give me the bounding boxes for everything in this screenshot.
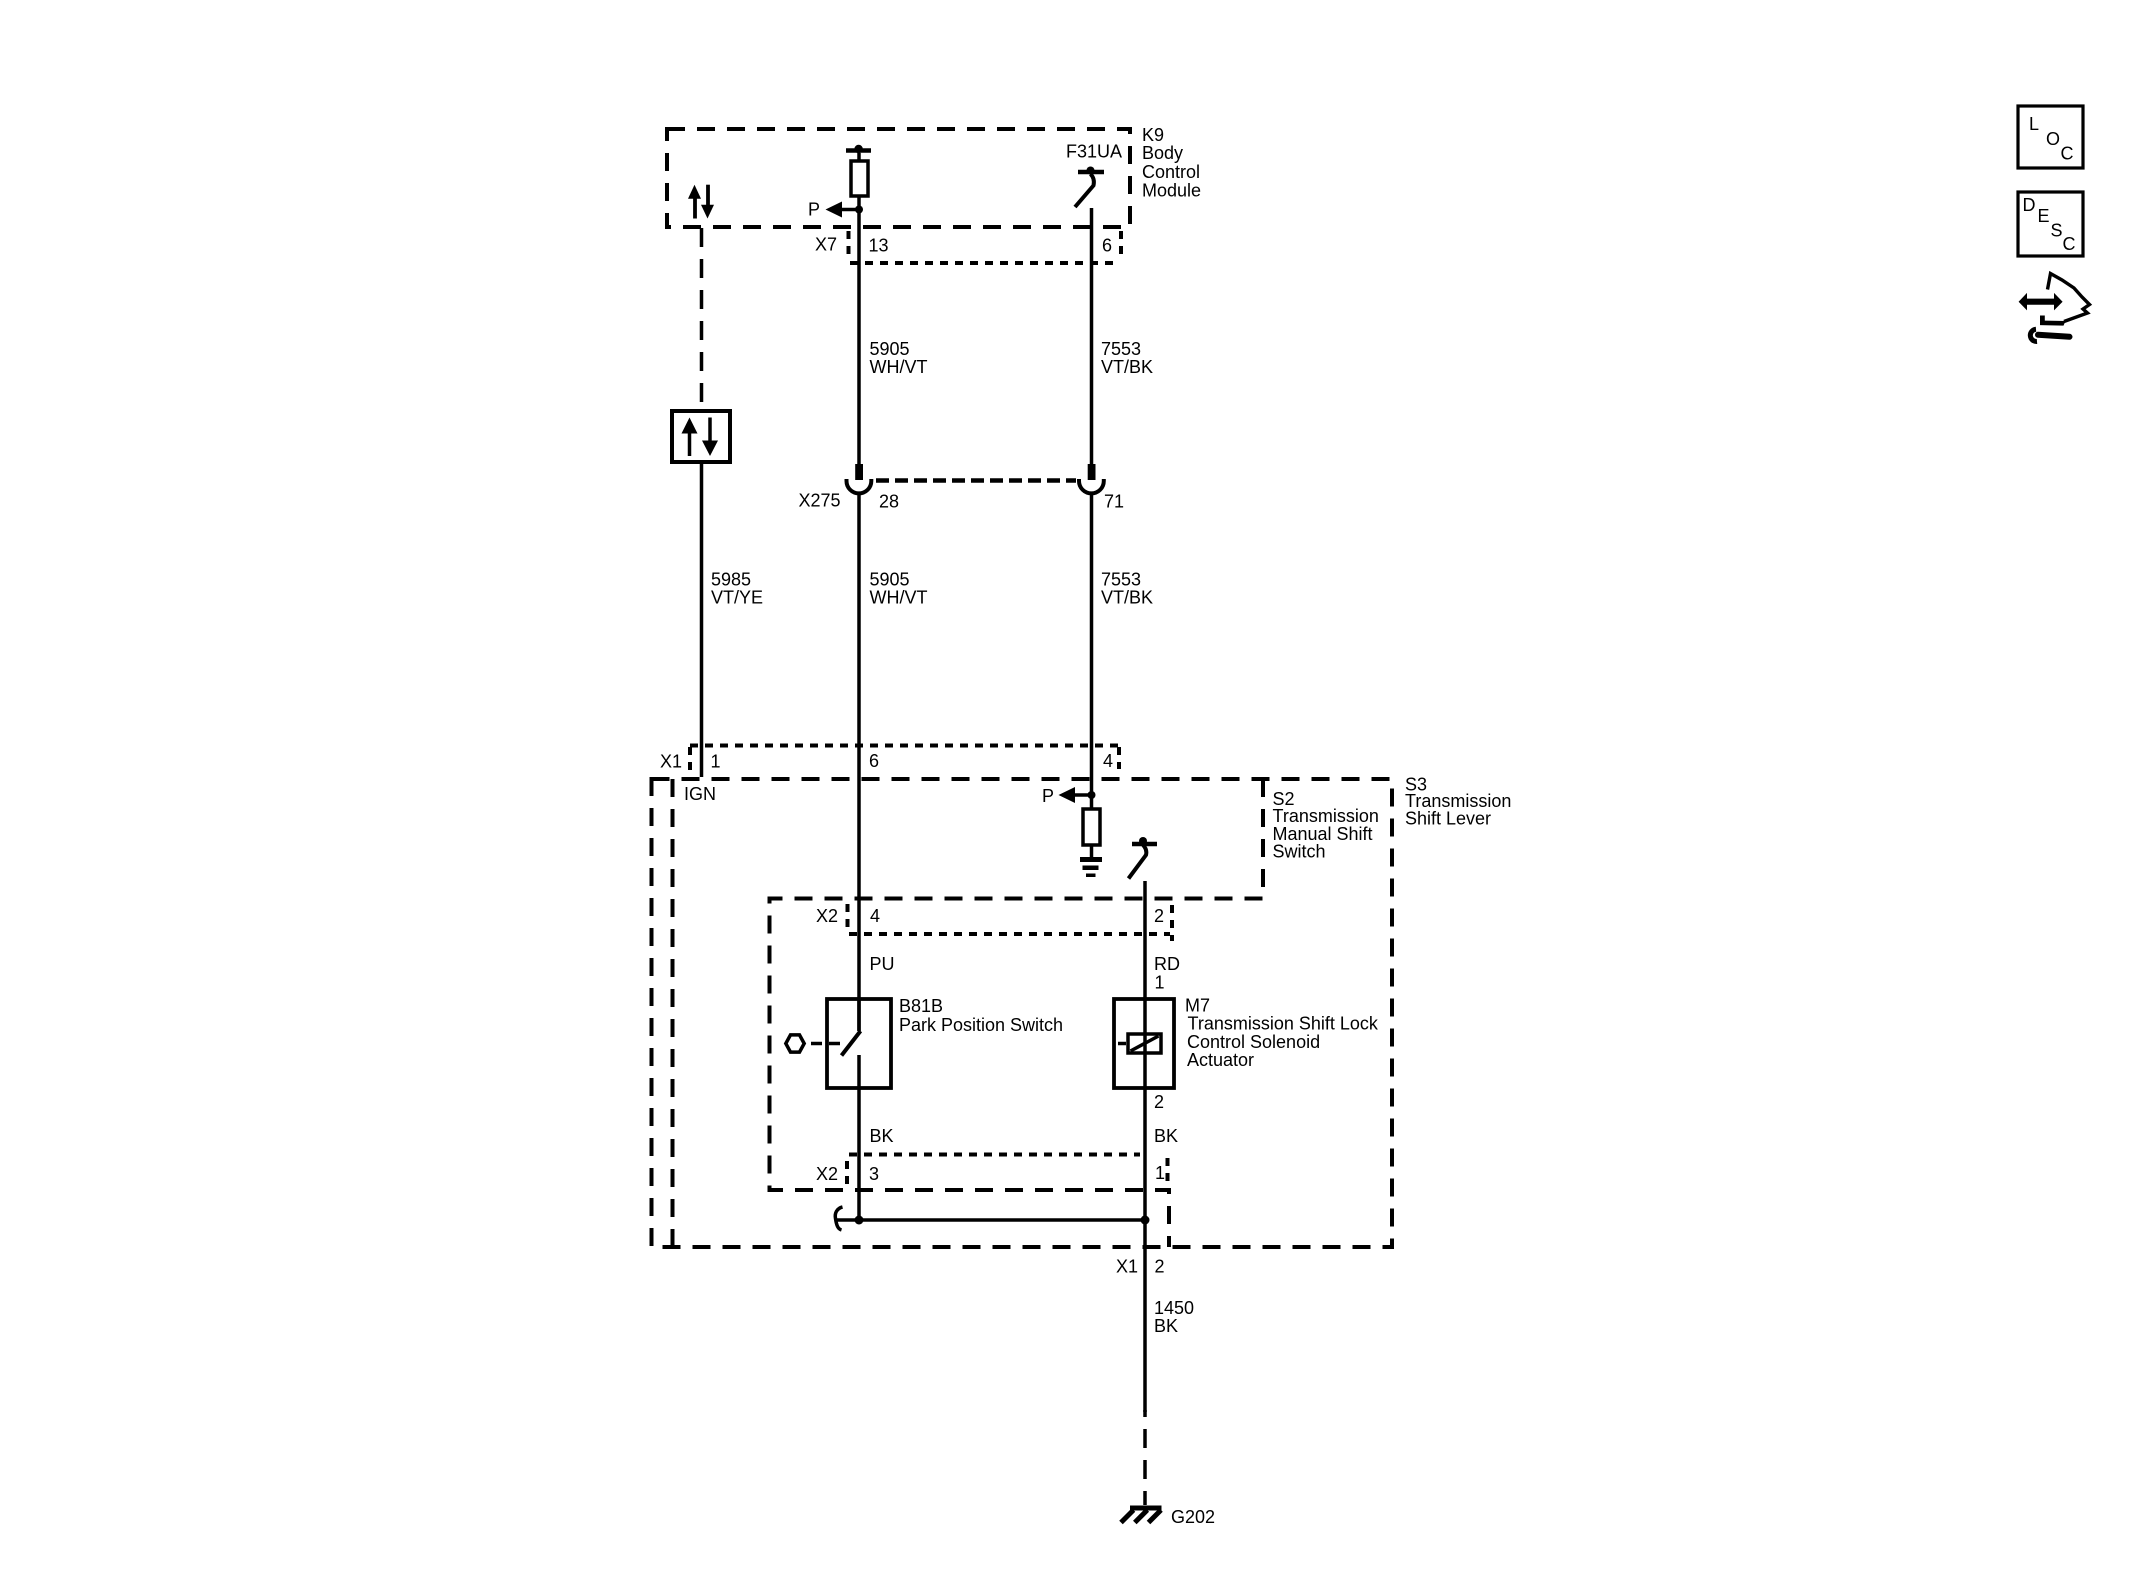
DESC box <box>2018 192 2083 256</box>
node P arrow inside S2 <box>1042 786 1096 806</box>
wire 7553 below X275 to X1.4 <box>1090 493 1094 777</box>
wire from resistor to ground symbol <box>1090 845 1094 857</box>
solenoid symbol inside M7 <box>1118 1034 1161 1053</box>
joining wire with curl hook <box>835 1207 1145 1230</box>
wire 7553 VT/BK from X7.6 to X275.71 <box>1090 232 1094 464</box>
svg-text:3: 3 <box>869 1164 879 1184</box>
svg-text:4: 4 <box>870 906 880 926</box>
svg-text:G202: G202 <box>1171 1507 1215 1527</box>
resistor inside S2 <box>1083 809 1100 845</box>
wire 5905 PU to B81B <box>857 777 861 1031</box>
S2 left inner dashed edge <box>671 779 675 1247</box>
component S3 Transmission Shift Lever dashed box <box>652 779 1393 1247</box>
svg-text:VT/BK: VT/BK <box>1101 587 1153 607</box>
dashed wire from K9 to up-down arrow box <box>700 228 704 411</box>
svg-text:IGN: IGN <box>684 784 716 804</box>
svg-text:Park Position Switch: Park Position Switch <box>899 1015 1063 1035</box>
dashed wire to G202 <box>1143 1410 1147 1505</box>
svg-text:WH/VT: WH/VT <box>870 357 928 377</box>
up/down arrows inside K9 <box>688 185 714 219</box>
connector X2 lower dotted outline <box>847 1155 1168 1189</box>
svg-text:B81B: B81B <box>899 996 943 1016</box>
svg-text:1: 1 <box>1155 1163 1165 1183</box>
svg-text:BK: BK <box>1154 1316 1178 1336</box>
svg-text:VT/BK: VT/BK <box>1101 357 1153 377</box>
svg-text:RD: RD <box>1154 954 1180 974</box>
connector X275 pin 28 male/female symbol <box>847 464 872 493</box>
component M7 solenoid box <box>1114 999 1174 1088</box>
wire through M7 <box>1143 999 1147 1088</box>
svg-text:BK: BK <box>1154 1126 1178 1146</box>
connector X275 pin 71 male/female symbol <box>1079 464 1104 493</box>
wire into B81B top <box>857 999 861 1031</box>
svg-text:X1: X1 <box>660 751 682 771</box>
svg-text:E: E <box>2038 206 2050 226</box>
svg-text:D: D <box>2023 195 2036 215</box>
svg-text:2: 2 <box>1154 906 1164 926</box>
component B81B Park Position Switch box <box>827 999 891 1088</box>
svg-text:4: 4 <box>1103 751 1113 771</box>
svg-text:BK: BK <box>870 1126 894 1146</box>
svg-text:VT/YE: VT/YE <box>711 587 763 607</box>
hex plunger and dashed actuator link of B81B <box>786 1035 840 1052</box>
svg-text:X2: X2 <box>816 906 838 926</box>
svg-text:6: 6 <box>869 751 879 771</box>
adjust icon wrench <box>2030 329 2069 341</box>
svg-text:WH/VT: WH/VT <box>870 587 928 607</box>
svg-text:Transmission Shift Lock: Transmission Shift Lock <box>1188 1014 1379 1034</box>
wire 7553 from switch to pin 6 <box>1090 208 1094 232</box>
svg-text:L: L <box>2029 114 2039 134</box>
svg-text:Module: Module <box>1142 181 1201 201</box>
wire 7553 into S2 to node P <box>1090 777 1094 809</box>
svg-text:S: S <box>2051 220 2063 240</box>
connector X7 dotted outline <box>849 231 1122 263</box>
S2 dashed boundary path <box>770 779 1264 1247</box>
up-down arrow box (two-way signal) <box>672 411 730 462</box>
svg-text:X275: X275 <box>799 490 841 510</box>
wire 5905 inside K9 from resistor to pin 13 <box>857 196 861 232</box>
svg-text:Switch: Switch <box>1273 842 1326 862</box>
svg-text:6: 6 <box>1102 236 1112 256</box>
adjust icon double arrow <box>2019 293 2063 311</box>
svg-text:PU: PU <box>870 954 895 974</box>
svg-text:K9: K9 <box>1142 125 1164 145</box>
wire BK from M7.2 down <box>1143 1088 1147 1220</box>
svg-text:X1: X1 <box>1116 1257 1138 1277</box>
svg-text:1450: 1450 <box>1154 1298 1194 1318</box>
svg-text:O: O <box>2046 129 2060 149</box>
wire 5905 WH/VT from X7.13 to X275.28 <box>857 232 861 464</box>
node P arrow inside K9 <box>808 200 863 220</box>
switch F31UA inside K9 <box>1075 167 1104 208</box>
svg-text:Control Solenoid: Control Solenoid <box>1187 1032 1320 1052</box>
switch S2 manual shift <box>1129 837 1158 879</box>
terminal bar at top of resistor in K9 <box>846 145 871 153</box>
svg-text:Actuator: Actuator <box>1187 1050 1254 1070</box>
svg-text:X7: X7 <box>815 235 837 255</box>
LOC box <box>2018 106 2083 168</box>
connector X1 dotted outline (top of S3) <box>690 746 1119 772</box>
svg-text:P: P <box>1042 786 1054 806</box>
svg-text:28: 28 <box>879 492 899 512</box>
ground G202 symbol <box>1121 1506 1162 1523</box>
svg-text:71: 71 <box>1104 492 1124 512</box>
resistor inside K9 <box>851 153 868 196</box>
switch blade inside B81B <box>842 1031 861 1056</box>
arrows inside the box <box>682 418 719 457</box>
svg-text:Control: Control <box>1142 162 1200 182</box>
svg-text:C: C <box>2061 143 2074 163</box>
svg-text:13: 13 <box>869 236 889 256</box>
svg-text:Shift Lever: Shift Lever <box>1405 809 1491 829</box>
svg-text:1: 1 <box>711 751 721 771</box>
ground symbol inside S2 <box>1080 857 1102 877</box>
wire 5985 VT/YE from arrow box to X1.1 <box>700 462 704 777</box>
connector X2 upper dotted outline <box>848 904 1173 941</box>
module K9 Body Control Module box <box>667 129 1130 227</box>
wire RD from switch to X2.2 <box>1143 881 1147 999</box>
dashed link line of inline connector X275 <box>876 478 1076 483</box>
wire 1450 through S3 bottom to X1.2 <box>1143 1220 1147 1412</box>
svg-text:P: P <box>808 200 820 220</box>
svg-text:M7: M7 <box>1185 996 1210 1016</box>
junction dot left <box>855 1216 864 1225</box>
svg-text:2: 2 <box>1155 1257 1165 1277</box>
wire from B81B lower contact down <box>857 1055 861 1220</box>
svg-text:X2: X2 <box>816 1164 838 1184</box>
svg-text:1: 1 <box>1155 973 1165 993</box>
adjust icon lever outline <box>2048 274 2090 322</box>
junction dot right <box>1141 1216 1150 1225</box>
wire 5905 below X275 to X1.6 <box>857 493 861 777</box>
svg-text:Body: Body <box>1142 143 1183 163</box>
svg-text:F31UA: F31UA <box>1066 141 1122 161</box>
svg-text:C: C <box>2063 234 2076 254</box>
svg-text:2: 2 <box>1154 1092 1164 1112</box>
